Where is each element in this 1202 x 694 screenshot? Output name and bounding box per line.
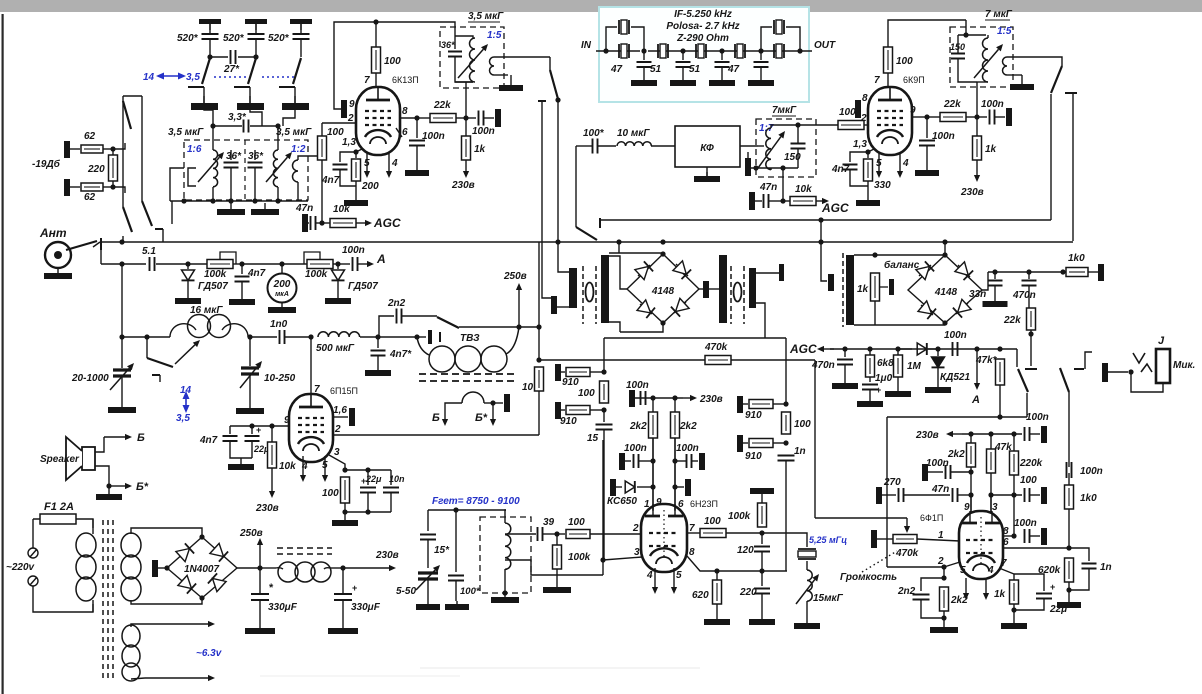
svg-text:62: 62 (84, 131, 96, 142)
sec out wire (494, 56, 550, 58)
ground bar under switch 1 (191, 103, 218, 110)
arrow 250в ps (259, 545, 261, 568)
switch blade col2 (142, 201, 152, 226)
wire 3,3* left (213, 125, 242, 127)
diode2 to gnd (337, 281, 339, 294)
speaker (82, 447, 95, 470)
svg-text:100: 100 (1020, 475, 1037, 486)
capacitor 100n out (479, 111, 484, 126)
switch blade S1a (202, 58, 210, 84)
node 620k bot (1066, 587, 1071, 592)
vario blade (147, 358, 173, 367)
330uF1 stem (259, 568, 261, 593)
AGC corner down (1016, 349, 1018, 367)
svg-text:A: A (971, 394, 980, 406)
910L top wire (561, 371, 565, 373)
balance bottom (874, 301, 876, 325)
svg-text:100*: 100* (583, 128, 605, 139)
svg-text:910: 910 (745, 451, 762, 462)
resistor 220 (109, 155, 118, 181)
node2 to 1k (976, 117, 978, 136)
svg-text:Мик.: Мик. (1173, 360, 1195, 371)
capacitor 4n7 cathode (333, 165, 348, 170)
svg-text:3,5 мкГ: 3,5 мкГ (276, 127, 312, 138)
2k2L top (652, 398, 654, 412)
pin7 wire d (687, 532, 700, 534)
10-250 bot (249, 374, 251, 404)
svg-text:620k: 620k (1038, 565, 1061, 576)
grid f down (943, 567, 945, 578)
330uF2 bot (342, 600, 344, 624)
node to 10k2 (783, 200, 790, 202)
tank box divider (244, 140, 246, 200)
svg-text:ТВЗ: ТВЗ (460, 333, 480, 344)
svg-text:Б*: Б* (136, 481, 149, 493)
mod1 R bottom lead (609, 322, 620, 332)
svg-text:+: + (1050, 582, 1055, 592)
svg-text:4: 4 (902, 158, 909, 169)
svg-text:8: 8 (402, 106, 408, 117)
svg-text:100k: 100k (568, 552, 591, 563)
TV3 sec right (484, 402, 493, 404)
ground grid f (943, 624, 945, 627)
bus242 node x945 (942, 239, 947, 244)
svg-text:1: 1 (938, 530, 944, 541)
node det diode1 (185, 261, 190, 266)
ground 100n plate (416, 166, 418, 170)
10n branch (390, 470, 392, 485)
sw2 contact dash (1074, 368, 1084, 370)
svg-text:620: 620 (692, 590, 709, 601)
node 250в (516, 324, 521, 329)
15* bot (427, 540, 429, 568)
150r top (957, 35, 959, 53)
ground KF (706, 172, 708, 176)
KF out to coil (758, 145, 764, 147)
contact dash bus220 (599, 218, 601, 228)
ground osc coil (504, 593, 506, 597)
resistor 22k 2 (940, 113, 966, 122)
svg-text:100: 100 (839, 107, 856, 118)
node osc gnd (502, 590, 507, 595)
100 osc to tube (590, 533, 642, 535)
svg-text:4n7*: 4n7* (389, 349, 412, 360)
bar TV3 sec (504, 394, 510, 412)
node tank bottom x255 (252, 198, 257, 203)
svg-text:2k2: 2k2 (950, 595, 968, 606)
crystal series x663 (658, 44, 668, 58)
svg-text:250в: 250в (239, 528, 263, 539)
resistor 47k* (996, 359, 1005, 385)
vacuum tube 6Н23П (641, 504, 687, 572)
svg-text:8: 8 (862, 93, 868, 104)
node 2k2 R top (672, 395, 677, 400)
af node down (761, 533, 763, 544)
plate supply wire (334, 22, 376, 109)
mod2 toroid (734, 283, 742, 302)
ground cathode p (344, 512, 346, 520)
svg-text:1,6: 1,6 (333, 405, 347, 416)
arrow 250в (518, 290, 520, 327)
ground tank2 (264, 203, 266, 209)
node grid 6P15P (308, 334, 313, 339)
1n f loop (1069, 548, 1089, 561)
330uF1 bot (259, 600, 261, 624)
pin9 to 10k (271, 426, 273, 442)
capacitor 100n AGC (953, 342, 958, 356)
4n7 bottom (340, 170, 356, 186)
node band2 (253, 54, 258, 59)
100nR wire (675, 460, 686, 462)
filament top (131, 624, 145, 627)
contact col2 (155, 228, 163, 230)
transformer filament (122, 625, 140, 647)
vol wiper arrow (906, 518, 908, 526)
resistor 1k (462, 136, 471, 160)
svg-text:36*: 36* (226, 151, 242, 162)
910L1 to node (590, 371, 604, 373)
resistor 22k (430, 114, 456, 123)
svg-text:Б*: Б* (475, 412, 488, 424)
resistor 10 (535, 367, 544, 391)
shunt stem2 683 (682, 67, 684, 80)
node to 10k (322, 222, 330, 224)
sec bottom lead (494, 74, 508, 76)
meter stem (281, 264, 283, 273)
mod2 winding R (749, 268, 756, 308)
diamond1 bottom loop (620, 323, 663, 332)
2n2 sw out (459, 326, 519, 328)
resistor 910 L1 (566, 368, 590, 377)
right crystal loop2 (786, 27, 800, 51)
svg-text:500 мкГ: 500 мкГ (316, 343, 355, 354)
svg-text:9: 9 (284, 415, 290, 426)
svg-text:470k: 470k (704, 342, 728, 353)
svg-text:7: 7 (314, 384, 320, 395)
blade to grid feed (1026, 393, 1028, 417)
node IF sw (555, 97, 560, 102)
node band1 (207, 54, 212, 59)
node 2k2cf bot (941, 615, 946, 620)
vacuum tube 6П15П (289, 394, 333, 462)
pin3 stem f (990, 495, 992, 513)
47n to node (316, 222, 322, 224)
crystal 5,25 МГц (798, 549, 816, 559)
svg-text:22k: 22k (1003, 315, 1021, 326)
diode 1N4007 a (180, 548, 190, 557)
osc coil top (505, 510, 506, 523)
node tank r top (963, 32, 968, 37)
tank r to plate node (976, 82, 978, 88)
switch contact C2 (234, 86, 250, 88)
910L2 to node (590, 409, 604, 411)
svg-text:230в: 230в (255, 503, 279, 514)
capacitor 22μ g (245, 436, 260, 441)
220 bot (761, 594, 763, 616)
wire att top2 (103, 148, 113, 150)
blue double arrow (185, 397, 187, 407)
mod1 top rail (609, 252, 663, 254)
inductor L1 (1:6) (213, 150, 218, 187)
tank2 bottom rail (748, 167, 798, 169)
vacuum tube 6К13П (356, 87, 400, 155)
node pin9 p (269, 423, 274, 428)
node539 327 (536, 324, 541, 329)
contact dash IF1b (538, 100, 546, 102)
filter choke (278, 562, 298, 582)
ground 100* osc (456, 601, 458, 604)
svg-text:51: 51 (650, 64, 662, 75)
shunt stem2 644 (643, 67, 645, 80)
330uF2 stem (342, 568, 344, 593)
plate node to 100n (416, 118, 418, 138)
node 2k2 L top (650, 395, 655, 400)
tank 36* stem (454, 36, 456, 49)
vacuum tube 6Ф1П (959, 511, 1003, 579)
grid feed y417 (887, 416, 1027, 418)
svg-text:520*: 520* (177, 33, 199, 44)
filter ground bar 761 (748, 80, 774, 86)
vario line5 (378, 336, 417, 338)
crystal upper left (619, 20, 629, 34)
svg-text:3,5: 3,5 (186, 72, 200, 83)
svg-text:36*: 36* (248, 151, 264, 162)
pin5 heater arrow (366, 152, 368, 171)
svg-text:AGC: AGC (789, 342, 817, 356)
svg-text:3: 3 (634, 547, 640, 558)
ground antenna (57, 268, 59, 273)
bridge bottom node (199, 595, 204, 600)
bar 100n f (1041, 426, 1047, 443)
osc coil bottom (504, 569, 506, 593)
wire tank left down (171, 201, 173, 224)
resistor 100 anode (372, 47, 381, 73)
crystal upper right (774, 20, 784, 34)
node 620 (714, 568, 719, 573)
L2b top lead (298, 156, 322, 160)
AGC node x898 (895, 346, 900, 351)
det line 3 (188, 263, 207, 265)
resistor 100 anode2 (884, 47, 893, 73)
diode 4148 2d (956, 303, 968, 314)
svg-text:1k: 1k (994, 589, 1006, 600)
node tank bottom x278 (275, 198, 280, 203)
cathode to 330 (867, 152, 869, 158)
capacitor 2n2 (397, 309, 402, 324)
resistor 62 bottom (81, 183, 103, 191)
resistor 1k f (1010, 580, 1019, 604)
diode КС650 (625, 481, 635, 493)
TV3 core (419, 374, 516, 381)
230v row d (633, 397, 683, 399)
ground cathode2 (867, 196, 869, 200)
pin6 stub (396, 128, 402, 137)
band switch vertical 1b (122, 96, 124, 207)
470n agc bot (844, 365, 846, 380)
svg-text:520*: 520* (268, 33, 290, 44)
meter 200uA (268, 274, 297, 303)
switch contact C1 (188, 86, 204, 88)
filter ground bar 644 (631, 80, 657, 86)
wire att bot2 (103, 186, 113, 188)
svg-text:100n: 100n (981, 99, 1004, 110)
resistor 47k f (987, 449, 996, 473)
svg-text:КС650: КС650 (607, 496, 637, 507)
node B+ tank (463, 115, 468, 120)
KF out (740, 145, 758, 147)
470n stem (1028, 272, 1030, 279)
mod2b bottom rail (854, 324, 945, 326)
node 100nR (672, 458, 677, 463)
capacitor 36* #1 (224, 163, 239, 168)
svg-text:230в: 230в (451, 180, 475, 191)
sec bot to bridge (131, 598, 202, 604)
svg-text:10n: 10n (389, 474, 405, 484)
pin9 stem f (970, 495, 972, 513)
svg-text:47: 47 (610, 64, 623, 75)
2k2cf bot (943, 611, 945, 624)
pin2 wire f (944, 562, 960, 567)
node cath 22u (365, 467, 370, 472)
node 33n (992, 269, 997, 274)
switch blade S1b (248, 58, 256, 84)
svg-text:51: 51 (689, 64, 701, 75)
node plate out2 (924, 114, 929, 119)
tuning arrow r (974, 49, 998, 78)
svg-text:330μF: 330μF (268, 602, 298, 613)
svg-text:47k*: 47k* (975, 355, 998, 366)
vacuum tube 6К9П (868, 87, 912, 155)
tank 36* bot (455, 57, 473, 82)
shunt stem2 722 (721, 67, 723, 80)
100n out to bar (484, 117, 494, 119)
svg-text:IN: IN (581, 40, 592, 51)
diode 4148 2a (919, 265, 931, 276)
svg-text:6П15П: 6П15П (330, 386, 358, 396)
svg-text:47n: 47n (295, 203, 313, 214)
anode supply t2 (887, 73, 889, 87)
inductor 7мкГ 1:5 (983, 38, 989, 82)
7мкГ tuning arrow (758, 137, 781, 168)
bridge minus node (164, 565, 169, 570)
wire cap 3 top (300, 24, 302, 33)
svg-text:100n: 100n (1080, 466, 1103, 477)
1u0 bot (869, 390, 871, 398)
div R bot to pin8 row (785, 462, 787, 571)
910R2 to node (773, 442, 786, 444)
potentiometer 470k vol (893, 535, 917, 544)
bar pin8 t2 (855, 100, 861, 118)
svg-text:120: 120 (737, 545, 754, 556)
svg-text:910: 910 (562, 377, 579, 388)
diamond2 top feed (944, 242, 946, 255)
AGC node x977 (974, 346, 979, 351)
diamond2 out (982, 272, 988, 290)
ground G1 (band cap 1 top) (199, 19, 221, 24)
svg-text:470k: 470k (895, 548, 919, 559)
КД521 stem (937, 349, 939, 356)
filter node x644 (641, 48, 646, 53)
wire cap 1 bottom (209, 39, 211, 57)
svg-text:1k0: 1k0 (1068, 253, 1085, 264)
ground G3 (band cap 3 top) (290, 19, 312, 24)
TV3 primary (417, 337, 429, 355)
capacitor 1n0 (280, 330, 285, 344)
node AGC takeoff (319, 220, 324, 225)
node rail a (753, 165, 758, 170)
filter IN drop (575, 146, 577, 227)
vario line (122, 336, 170, 338)
ground sec r (1021, 75, 1023, 84)
resistor 100 osc (566, 530, 590, 539)
node grid f (941, 564, 946, 569)
xtal feed (762, 533, 807, 547)
to 22k (417, 117, 430, 119)
capacitor 20-1000 (113, 370, 131, 376)
ground bar under switch 2 (237, 103, 264, 110)
ground 100n2 (926, 166, 928, 170)
node att top (110, 146, 115, 151)
5-50 bot (427, 580, 429, 601)
1M stem (897, 349, 899, 355)
diode 4148 2b (958, 265, 970, 277)
bar 100 f (1041, 487, 1047, 504)
resistor 910 R1 (749, 400, 773, 409)
svg-text:22k: 22k (943, 99, 961, 110)
1k0f bot (1068, 509, 1070, 548)
capacitor 27* (231, 50, 236, 64)
anode supply t2b (888, 20, 966, 47)
AGC arrow main (824, 348, 834, 350)
x539 low (538, 391, 540, 435)
underline 7мкГ (772, 115, 796, 117)
attenuator right bracket (112, 149, 114, 155)
cathode to 4n7 (340, 152, 356, 162)
L2 tuning arrow (266, 157, 287, 182)
100nfl wire (928, 471, 943, 473)
to 22k2 (927, 116, 940, 118)
dotted громкость (862, 551, 897, 572)
sec top to bridge (131, 528, 202, 537)
svg-text:200: 200 (361, 181, 379, 192)
capacitor 100* (593, 139, 598, 154)
bridge top node (199, 534, 204, 539)
100nf to bar (1030, 433, 1040, 435)
pin4 heater arrow (388, 152, 390, 171)
arrow 230v stage2 (976, 160, 978, 175)
22k to node (456, 117, 466, 119)
resistor 220k f (1010, 451, 1019, 475)
node vario L (119, 334, 124, 339)
capacitor 270 (899, 488, 904, 502)
dashed box osc coil (480, 517, 531, 593)
2n2f bot (921, 600, 944, 618)
ground 100k osc (556, 584, 558, 587)
TV3 sec bar wire (493, 402, 503, 404)
contact drop C3 (294, 87, 296, 96)
node jack (1128, 369, 1133, 374)
capacitor 470n AGC (837, 360, 853, 365)
potentiometer 1k balance (871, 273, 880, 301)
470n to 22k (1028, 286, 1030, 308)
2n2 f branch (921, 578, 944, 591)
svg-text:220: 220 (87, 164, 105, 175)
4n7 det to gnd (241, 282, 243, 295)
bar AGC2 (749, 192, 755, 210)
diode 1N4007 c (182, 580, 192, 589)
svg-text:100k: 100k (728, 511, 751, 522)
capacitor 51 shunt (676, 62, 691, 67)
